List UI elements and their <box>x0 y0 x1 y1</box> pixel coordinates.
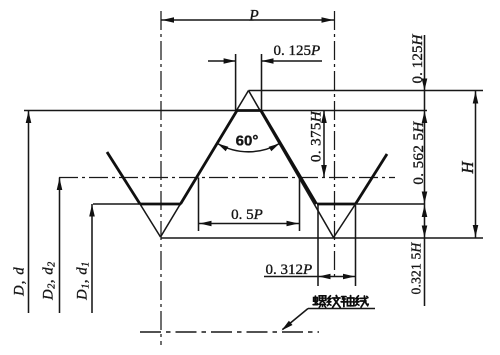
center tooth right flank <box>249 91 334 238</box>
svg-text:0. 562 5H: 0. 562 5H <box>411 121 427 185</box>
dimension 0.375H <box>323 111 325 178</box>
dimension 0.125H <box>422 79 428 91</box>
svg-text:0.321 5H: 0.321 5H <box>409 242 424 295</box>
right groove root flat D1 <box>317 203 356 206</box>
dimension 0.5625H <box>422 192 428 204</box>
svg-text:D, d: D, d <box>12 266 28 297</box>
right groove right flank <box>356 154 388 204</box>
dimension P <box>161 19 335 21</box>
svg-text:0. 312P: 0. 312P <box>266 262 313 278</box>
svg-text:D2, d2: D2, d2 <box>41 261 58 301</box>
thread axis label leader <box>308 308 375 310</box>
crest line D,d major diameter <box>24 110 427 112</box>
root line (bottom of H) <box>161 237 484 239</box>
label: thread axis (luo wen zhou xian) <box>313 296 368 308</box>
svg-text:60°: 60° <box>236 133 259 150</box>
left groove root flat D1 <box>140 203 181 206</box>
svg-text:P: P <box>248 8 259 25</box>
svg-text:D1, d1: D1, d1 <box>75 261 92 301</box>
svg-text:0. 5P: 0. 5P <box>231 207 263 223</box>
thread axis line <box>140 331 319 333</box>
svg-text:0. 125P: 0. 125P <box>274 43 321 59</box>
left groove left flank <box>107 152 140 204</box>
svg-text:H: H <box>458 160 477 174</box>
dimension D,d <box>28 111 30 314</box>
pitch line D2,d2 <box>59 177 395 179</box>
dimension 0.125P <box>235 54 237 110</box>
minor diameter line D1,d1 <box>93 203 141 205</box>
dimension D1,d1 <box>91 204 93 313</box>
svg-text:0. 375H: 0. 375H <box>309 110 325 162</box>
dimension 0.3215H <box>422 205 428 217</box>
center tooth left flank <box>161 91 249 238</box>
dimension 0.5P <box>198 178 200 232</box>
right thread centerline <box>334 11 336 281</box>
crest flat <box>236 109 262 112</box>
60 degree thread angle arc <box>218 144 280 152</box>
right chain dimension line <box>424 35 426 306</box>
left thread centerline <box>160 11 162 345</box>
svg-text:0. 125H: 0. 125H <box>410 33 426 83</box>
dimension 0.312P <box>317 205 319 286</box>
dimension D2,d2 <box>59 178 61 314</box>
apex line (top of H) <box>249 90 484 92</box>
dimension H <box>475 91 477 239</box>
